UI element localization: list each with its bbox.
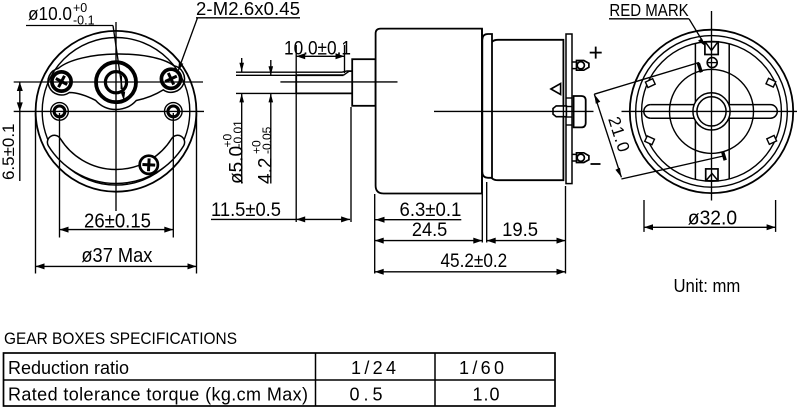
arrow left ø37 (36, 263, 45, 269)
crimp tab SE (767, 135, 777, 144)
dim 26 extension lines (59, 113, 61, 238)
dim 21.0 (594, 63, 699, 95)
dim 26 line (60, 229, 174, 231)
svg-text:45.2±0.2: 45.2±0.2 (441, 250, 508, 272)
svg-text:Rated tolerance torque (kg.cm: Rated tolerance torque (kg.cm Max) (8, 385, 308, 405)
gearbox outer circle (36, 31, 197, 192)
crimp tab SW (645, 136, 655, 145)
screw top-right (162, 70, 180, 88)
vent triangle (551, 84, 561, 95)
arrow up 6.5 (17, 82, 23, 91)
svg-text:ø32.0: ø32.0 (688, 208, 737, 230)
cap rungs (566, 98, 572, 125)
rim circle 2 (636, 36, 788, 188)
arrow right ø37 (188, 263, 197, 269)
leader ø10 (113, 26, 123, 97)
center ring outer (693, 93, 730, 130)
svg-text:GEAR BOXES SPECIFICATIONS: GEAR BOXES SPECIFICATIONS (4, 330, 237, 348)
svg-text:6.3±0.1: 6.3±0.1 (400, 199, 462, 221)
svg-text:-0.01: -0.01 (231, 120, 245, 148)
crimp tab NE (766, 78, 776, 87)
front plate flange (482, 34, 492, 178)
centerline horizontal through screws/shaft (14, 81, 203, 83)
svg-text:Unit: mm: Unit: mm (674, 276, 741, 296)
motor centerline (434, 110, 594, 112)
red mark square (705, 42, 718, 55)
arrow left 26 (60, 227, 69, 233)
boss circle (670, 69, 754, 153)
rear cap flange (566, 34, 572, 184)
centerline vertical (711, 11, 713, 201)
svg-text:ø5.0: ø5.0 (227, 146, 248, 184)
shaft extension thin lines (236, 71, 342, 73)
svg-text:2-M2.6x0.45: 2-M2.6x0.45 (196, 0, 300, 19)
front bearing boss (352, 59, 375, 106)
hole left (51, 103, 69, 121)
svg-text:6.5±0.1: 6.5±0.1 (0, 124, 18, 181)
leader M2.6 (180, 18, 198, 67)
svg-text:ø37 Max: ø37 Max (81, 244, 153, 267)
terminal tick 2 (723, 152, 726, 161)
rim circle 3 (642, 42, 782, 182)
center ring inner (697, 97, 726, 126)
terminal bottom tab (572, 154, 577, 161)
crimp tab NW (645, 79, 655, 88)
dim 6.5±0.1 line (19, 82, 21, 181)
terminal top tab (572, 62, 577, 69)
redraw body right edge (481, 29, 483, 194)
screw bottom (140, 156, 158, 174)
leader red mark (689, 19, 704, 44)
svg-text:11.5±0.5: 11.5±0.5 (211, 199, 281, 221)
svg-text:RED MARK: RED MARK (609, 0, 689, 20)
rear boss (574, 96, 586, 127)
shaft ring inner (ø5 shaft) (105, 72, 126, 93)
arrow down 6.5 (17, 102, 23, 111)
dim ø32.0 (643, 200, 645, 232)
svg-text:24.5: 24.5 (412, 220, 447, 241)
gearbox body (376, 29, 482, 194)
dim 4.2 arrows (270, 60, 272, 75)
motor can (490, 40, 563, 180)
centerline horizontal (622, 110, 798, 112)
svg-text:26±0.15: 26±0.15 (84, 210, 151, 233)
bottom smile slot (white core) (54, 142, 177, 176)
svg-text:1/60: 1/60 (459, 358, 504, 378)
label ø5.0 +0 -0.01 (rotated) (220, 120, 247, 184)
minus mark (591, 163, 601, 165)
horizontal spoke (644, 105, 777, 119)
output shaft (296, 71, 352, 94)
gearbox inner circle (42, 38, 190, 186)
centerline horizontal through holes (14, 110, 204, 112)
dim ø5.0 arrows (241, 58, 243, 72)
label 4.2 +0 -0.05 (rotated) (249, 126, 276, 184)
shaft D-flat chord (120, 76, 122, 90)
terminal tick 1 (698, 63, 701, 72)
shaft ring outer (ø10 boss) (96, 62, 136, 102)
screw top-left (52, 72, 70, 90)
bottom smile slot (black) (54, 142, 177, 176)
dim ø37 line (36, 265, 197, 267)
svg-text:1/24: 1/24 (351, 358, 396, 378)
arrow right 26 (164, 227, 173, 233)
boss circle right screw (160, 68, 182, 90)
svg-text:4.2: 4.2 (256, 158, 277, 184)
table frame (4, 353, 556, 406)
svg-text:-0.05: -0.05 (260, 126, 274, 154)
svg-text:ø10.0: ø10.0 (28, 3, 72, 24)
outer circle (630, 30, 793, 193)
hole right (165, 103, 183, 121)
centerline vertical (115, 22, 117, 211)
svg-text:0.5: 0.5 (350, 385, 383, 405)
top boss band outline (48, 54, 185, 109)
rear shaft step (553, 106, 566, 117)
boss circle left screw (51, 71, 73, 93)
svg-text:Reduction ratio: Reduction ratio (8, 358, 129, 378)
plus mark (590, 47, 602, 59)
vertical band (695, 43, 729, 179)
vent hole (707, 58, 717, 68)
bottom square (706, 169, 718, 181)
shaft centerline (280, 81, 397, 83)
svg-text:1.0: 1.0 (473, 385, 500, 405)
dim ø37 extension lines (35, 113, 37, 274)
svg-text:19.5: 19.5 (502, 220, 538, 241)
